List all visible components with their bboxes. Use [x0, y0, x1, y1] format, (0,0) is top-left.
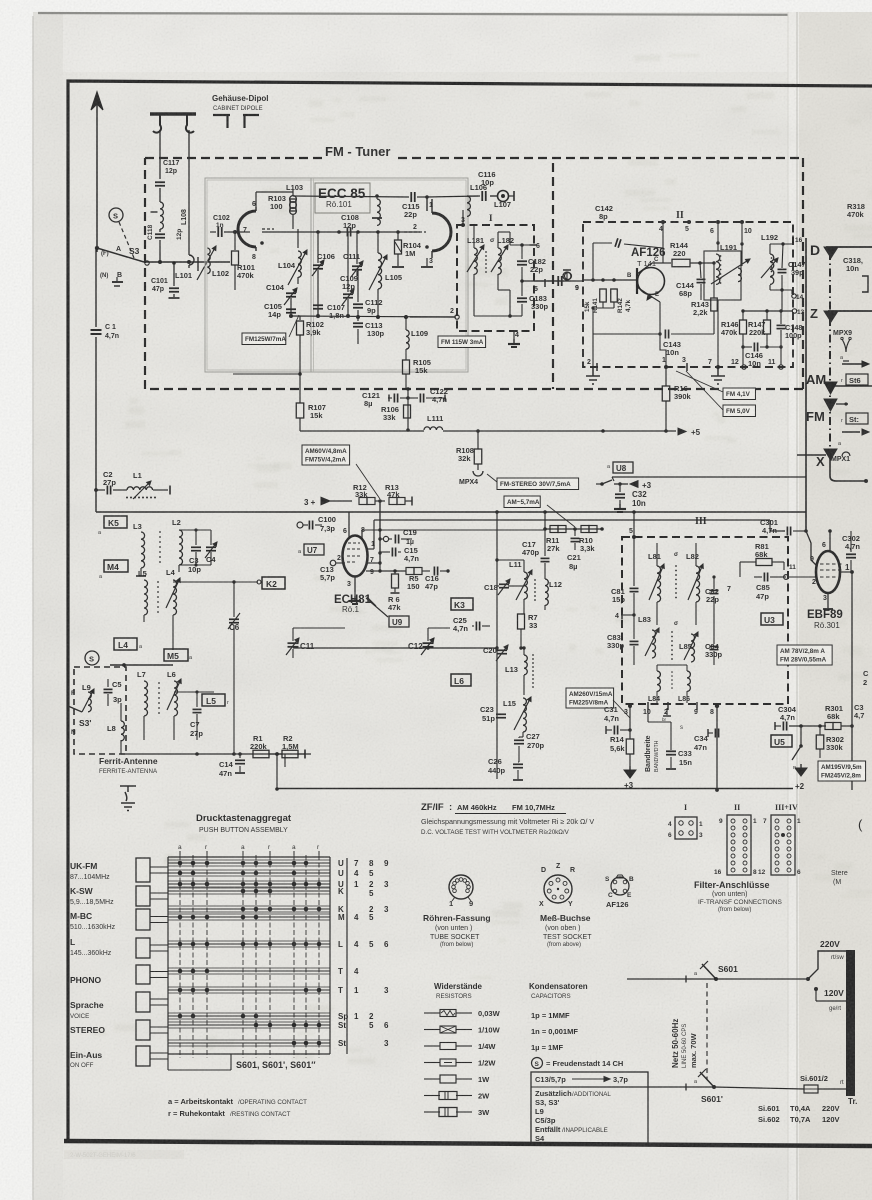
wire r141 bottoms	[602, 302, 604, 308]
capacitor C146	[753, 343, 755, 352]
callout AM78V	[777, 645, 832, 665]
terminal U9	[389, 616, 409, 627]
wire L2 tank	[179, 529, 211, 531]
wire	[119, 222, 134, 258]
inductor L105 variable	[378, 253, 382, 289]
wire to EBF89 pin9	[806, 531, 817, 566]
wire 648	[293, 647, 497, 649]
ground +2	[800, 764, 802, 768]
wire	[145, 261, 230, 263]
wire plate bus	[293, 196, 409, 197]
boxed M4	[104, 560, 128, 572]
switch contact S	[109, 208, 123, 222]
wire bottom	[459, 316, 474, 318]
additional box	[531, 1072, 648, 1144]
inductor L12	[545, 579, 548, 605]
ECH81 ground pin3	[354, 592, 356, 596]
wire IF col left	[496, 512, 498, 779]
ECH81 grid dashes	[347, 548, 361, 550]
tube ECH81	[343, 536, 368, 577]
chain line	[829, 252, 831, 455]
arrow right 2	[842, 431, 860, 433]
terminal St7	[846, 413, 868, 424]
dashed link S601	[706, 983, 708, 1080]
wire +5 bus	[300, 430, 424, 432]
wire feed 380	[379, 501, 381, 571]
wire bottom run	[560, 1086, 684, 1088]
transformer bar	[846, 950, 855, 1096]
wire c147 down	[781, 290, 783, 311]
pushbutton matrix frame	[167, 857, 169, 1054]
pushbutton grid verticals	[179, 855, 181, 1058]
EBF89 pins	[829, 531, 831, 551]
120V tap	[814, 987, 818, 991]
pushbutton left connectors	[136, 858, 150, 882]
wire input 9	[534, 280, 583, 282]
capacitor C102	[210, 231, 216, 233]
resistor R102	[299, 316, 301, 320]
resistor R141	[600, 289, 607, 302]
wire	[159, 130, 161, 168]
wire base bus	[583, 279, 637, 281]
wire collector	[652, 262, 660, 264]
capacitor C104 variable	[286, 292, 296, 294]
tube ECC85 triode a	[238, 211, 256, 247]
wire l6 top	[174, 691, 197, 693]
paper top edge	[38, 13, 872, 15]
tube socket diagram	[449, 875, 473, 899]
pushbutton bracket	[346, 858, 348, 1054]
arrow +3	[630, 481, 638, 488]
resistor R105	[403, 360, 410, 374]
transistor AF126 T141	[638, 268, 665, 295]
resistor R142	[611, 289, 618, 302]
inductor L108	[159, 188, 161, 202]
resistor legend rows	[424, 1012, 440, 1014]
wire k grid	[379, 501, 381, 563]
FM-Tuner enclosure	[145, 158, 803, 389]
resistor R6	[392, 574, 399, 588]
circle S mid	[85, 651, 99, 665]
pushbutton rows	[168, 859, 330, 861]
capacitor C101	[173, 263, 175, 286]
wire grid bus	[262, 231, 420, 233]
terminal MPX4	[473, 471, 483, 476]
wire 477 line	[612, 476, 806, 478]
boxed K3	[451, 598, 473, 610]
wire dots col	[534, 579, 536, 581]
capacitor C100	[297, 522, 303, 528]
core dots L83L85	[671, 631, 673, 633]
arrow +5	[678, 428, 686, 435]
test socket diagram	[544, 875, 572, 903]
wire 398	[407, 389, 409, 430]
resistor R302	[816, 735, 824, 749]
wire r81 c85 loop	[739, 562, 741, 577]
wire S601 run	[627, 978, 684, 980]
boxed L6	[451, 674, 471, 686]
wire 790 long	[277, 788, 793, 790]
inductor L103 secondary	[376, 196, 378, 199]
inductor L104 variable	[297, 229, 299, 248]
tube ECC85 triode b	[432, 213, 451, 251]
capacitor C105	[286, 308, 296, 310]
wire R11 R10 bus	[545, 528, 602, 530]
callout FM115W3mA	[438, 336, 486, 348]
boxed M5	[164, 649, 188, 661]
wire L182	[497, 232, 499, 248]
wire r2 down	[284, 754, 286, 767]
boxed K5	[104, 516, 127, 528]
switch S3	[95, 246, 99, 250]
L191 shield box	[704, 251, 741, 300]
wire osc bottom	[291, 316, 456, 317]
switch U5	[800, 726, 802, 746]
boxed L5 label	[202, 694, 225, 706]
resistor R106	[404, 405, 411, 418]
wire bandset	[647, 708, 649, 722]
wire osc lines	[292, 628, 294, 641]
callout AM60V FM75V	[302, 445, 350, 465]
capacitor C122	[419, 394, 421, 403]
callout AM260V	[566, 688, 614, 708]
core dots L84L86	[671, 671, 673, 673]
callout FM 5,0V	[723, 405, 755, 417]
pushbutton frame bottom	[167, 1054, 169, 1070]
wire	[255, 192, 257, 207]
wire k2	[173, 581, 258, 583]
ground main	[120, 786, 136, 811]
resistor R16	[665, 368, 667, 386]
wire L84 L86 tops	[657, 664, 687, 666]
capacitor C21	[574, 529, 576, 536]
capacitor C118	[155, 233, 165, 235]
wire L191 bottom	[717, 300, 719, 367]
wire	[467, 195, 478, 197]
callout FM 4,1V	[723, 388, 755, 400]
resistor R10	[581, 526, 589, 533]
wire vertical 806	[805, 238, 807, 531]
callout FM125W/7mA	[242, 333, 286, 345]
core dots L2L3	[159, 531, 161, 533]
wire bus 512	[96, 511, 806, 513]
fold crease	[788, 12, 799, 1200]
capacitor C117	[159, 168, 161, 179]
core dots L4L5	[157, 581, 159, 583]
wire pin3 down	[629, 706, 631, 739]
inductor L1	[126, 497, 128, 499]
resistor R104	[395, 240, 402, 254]
tube EBF89	[816, 551, 840, 593]
wire emitter	[652, 297, 660, 302]
capacitor C85	[763, 573, 765, 582]
pin 14	[770, 289, 792, 291]
right-of-fold tint	[799, 12, 872, 1200]
core dots L6L7	[158, 682, 160, 684]
terminal 9	[563, 272, 571, 280]
EBF89 ground	[823, 608, 833, 610]
wire m5	[110, 664, 173, 666]
shield box	[205, 178, 468, 372]
Freudenstadt note	[532, 1058, 543, 1069]
220V tap	[808, 951, 849, 979]
resistor R7	[518, 614, 525, 629]
filter box I	[457, 225, 534, 331]
capacitor C1	[95, 248, 97, 327]
inductor L107	[498, 191, 509, 202]
ferrite dashed box	[74, 667, 126, 754]
wire bottom bus ferrite	[121, 753, 311, 755]
capacitor C143	[593, 333, 661, 335]
wire ebf right	[851, 572, 853, 790]
capacitor C32	[619, 484, 621, 492]
callout AM195V	[818, 761, 866, 781]
AF126 socket diagram	[611, 877, 629, 895]
filter box II	[583, 222, 793, 367]
boxed L4 label	[114, 638, 137, 650]
wire X elbow	[797, 454, 826, 456]
resistor R107	[299, 374, 301, 403]
callout FM-STEREO	[497, 478, 579, 490]
callout AM 5,7mA	[504, 496, 540, 508]
cabinet dipole symbol	[150, 112, 196, 115]
antenna	[96, 133, 98, 252]
filter box III	[622, 537, 788, 704]
boxed U5	[771, 735, 792, 747]
label ECC 85	[315, 183, 370, 213]
arrow right	[842, 363, 864, 365]
wire pin2 gnd	[592, 334, 594, 367]
ground +3	[629, 766, 631, 770]
node FM	[824, 399, 837, 411]
boxed U3	[761, 613, 783, 625]
wire 520 line	[373, 520, 375, 549]
wire 311 bus	[743, 310, 793, 312]
wire drop to 790	[276, 754, 278, 789]
wire U8	[602, 480, 612, 484]
resistor R101	[234, 232, 236, 250]
wire box3 top	[770, 520, 785, 531]
wire IF col cross	[497, 559, 524, 561]
resistor R11	[550, 526, 558, 533]
resistor R108	[474, 449, 482, 464]
boxed K2	[262, 577, 285, 589]
EBF89 grid dashes	[820, 563, 844, 565]
divider	[552, 163, 554, 389]
wire node 7	[244, 231, 250, 233]
wire c6 down	[233, 625, 235, 754]
inductor L102 variable	[207, 248, 210, 274]
wire pin8 down	[716, 706, 718, 790]
inductor L101	[188, 168, 190, 255]
